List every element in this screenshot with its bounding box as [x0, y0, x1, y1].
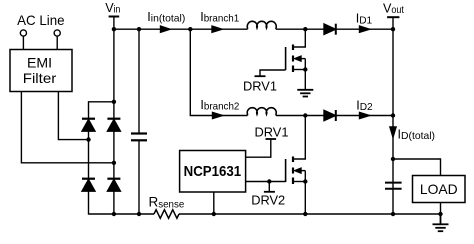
- svg-text:Ibranch2: Ibranch2: [200, 98, 239, 113]
- arrow Iin(total): [161, 26, 171, 32]
- op-amp U1 NCP1631 box: [180, 151, 246, 193]
- transistor Q1 channel dashes: [292, 45, 294, 73]
- junction dots bridge: [86, 100, 116, 165]
- svg-text:Rsense: Rsense: [149, 195, 185, 211]
- wire: left AC terminal to EMI filter: [22, 36, 24, 49]
- wire: bridge top rail, left column and bottom rail left segment: [89, 102, 155, 214]
- junction Q1 source node: [303, 67, 307, 71]
- arrow Ibranch2: [213, 112, 223, 118]
- terminal DRV1 bar (at NCP1631): [266, 138, 277, 140]
- svg-text:LOAD: LOAD: [420, 181, 458, 197]
- svg-text:ID(total): ID(total): [398, 128, 436, 143]
- transistor Q1 gate bar: [285, 47, 287, 70]
- svg-text:Iin(total): Iin(total): [147, 10, 185, 25]
- wire: input filter capacitor branch upper: [138, 29, 140, 133]
- diode D1: [324, 24, 336, 35]
- junction dots Vout line: [391, 157, 395, 216]
- wire: EMI filter left output to bridge right node: [21, 92, 114, 163]
- svg-text:ID2: ID2: [356, 98, 373, 113]
- AC Line terminal left: [20, 30, 26, 36]
- ground (Q1 source): [297, 90, 313, 97]
- wire: Vout vertical line: [392, 17, 394, 214]
- arrow ID(total): [390, 127, 396, 137]
- junction DRV2 stub node: [267, 179, 271, 183]
- transistor Q1 source stub: [293, 69, 305, 71]
- arrow ID1: [360, 26, 370, 32]
- capacitor Cin plates: [131, 134, 147, 141]
- wire: right AC terminal to EMI filter: [56, 36, 58, 49]
- LOAD box: [413, 176, 466, 203]
- svg-text:Filter: Filter: [23, 70, 57, 86]
- node Vout terminal bar: [387, 16, 399, 18]
- junction dots top rail: [112, 27, 395, 31]
- svg-text:ID1: ID1: [356, 12, 373, 27]
- svg-text:Ibranch1: Ibranch1: [200, 10, 239, 25]
- wire: NCP1631 DRV2 output to Q2 gate: [246, 181, 286, 183]
- svg-text:AC Line: AC Line: [17, 12, 65, 28]
- wire: Q1 gate lead to DRV1 stub: [260, 70, 286, 76]
- transistor Q2 gate bar: [285, 159, 287, 182]
- wire: NCP1631 DRV1 output: [246, 139, 271, 157]
- svg-text:DRV1: DRV1: [255, 124, 289, 139]
- AC Line terminal right: [54, 30, 60, 36]
- wire: main top rail (branch 1): [114, 28, 248, 30]
- arrow Ibranch1: [212, 26, 222, 32]
- transistor Q1 drain lead: [293, 29, 305, 47]
- EMI Filter block: [10, 50, 72, 92]
- wire: EMI filter right output to bridge left node: [58, 92, 88, 140]
- wire: bottom rail right of Rsense: [179, 213, 441, 215]
- inductor L1: [247, 21, 276, 29]
- svg-text:DRV1: DRV1: [243, 79, 277, 94]
- terminal DRV1 bar (at Q1 gate): [255, 75, 266, 77]
- capacitor Cout plates: [385, 183, 402, 189]
- diode bridge top-right: [107, 119, 120, 132]
- arrow ID2: [360, 112, 370, 118]
- svg-text:Vout: Vout: [383, 2, 404, 17]
- terminal DRV2 bar: [264, 191, 275, 193]
- svg-text:Vin: Vin: [105, 1, 120, 16]
- transistor Q2 drain lead: [293, 116, 305, 160]
- transistor Q2 body arrow: [295, 168, 306, 173]
- wire: Q2 source to bottom rail: [304, 171, 306, 214]
- wire: load tee from Vout line: [393, 159, 441, 176]
- wire: NCP1631 CS pin to bottom rail: [213, 192, 215, 214]
- junction dots bottom rail: [112, 212, 443, 216]
- diode D2: [324, 110, 336, 121]
- wire: Q1 source to ground: [304, 59, 306, 90]
- wire: LOAD bottom to rail: [440, 203, 442, 215]
- wire: input filter capacitor branch lower: [138, 140, 140, 214]
- svg-text:DRV2: DRV2: [251, 193, 285, 208]
- wire: branch 2 takeoff: [190, 29, 247, 115]
- transistor Q2 channel dashes: [292, 157, 294, 185]
- node Vin terminal bar: [109, 16, 120, 18]
- wire: DRV2 stub: [268, 182, 270, 192]
- diode bridge top-left: [82, 119, 95, 132]
- inductor L2: [247, 108, 276, 116]
- transistor Q1 body arrow: [295, 56, 306, 61]
- junction dots branch 2: [303, 113, 395, 117]
- transistor Q2 source stub: [293, 181, 305, 183]
- diode bridge bottom-left: [82, 179, 95, 192]
- wire: Vin vertical / bridge right column: [113, 17, 115, 215]
- diode bridge bottom-right: [107, 179, 120, 192]
- svg-text:EMI: EMI: [27, 55, 52, 71]
- ground (output): [433, 214, 449, 231]
- junction Q2 source node: [303, 179, 307, 183]
- resistor Rsense: [154, 210, 179, 219]
- svg-text:NCP1631: NCP1631: [184, 163, 242, 180]
